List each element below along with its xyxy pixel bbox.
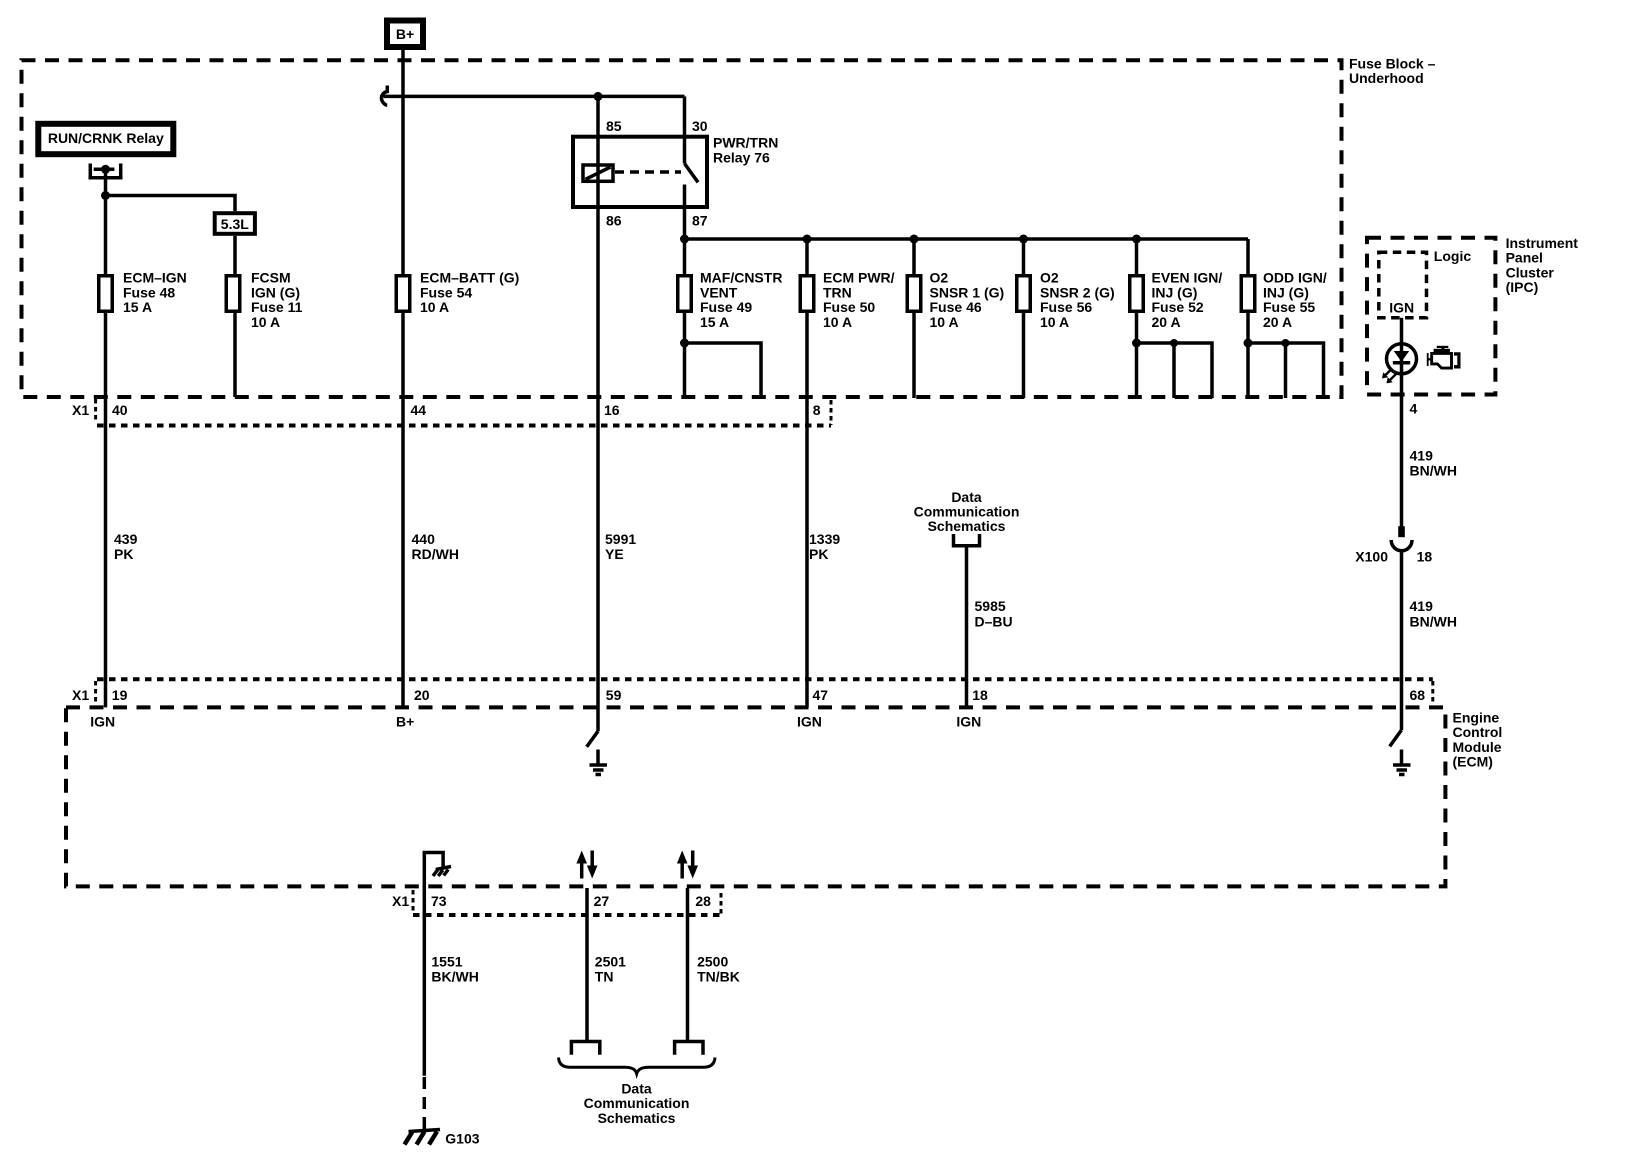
- junction dots ODD bay: [1244, 339, 1253, 348]
- svg-text:18: 18: [1417, 549, 1433, 565]
- ground symbol pin 59: [590, 750, 608, 775]
- svg-text:10 A: 10 A: [420, 299, 449, 315]
- svg-text:EVEN IGN/: EVEN IGN/: [1152, 270, 1223, 286]
- Fuse Block - Underhood dashed box: [22, 60, 1342, 397]
- label wire 5991 YE: [605, 531, 636, 562]
- label Fuse Block - Underhood: [1349, 55, 1436, 86]
- fuse F11 FCSM IGN: [226, 276, 240, 312]
- svg-text:IGN: IGN: [956, 713, 981, 729]
- svg-text:VENT: VENT: [700, 284, 738, 300]
- svg-text:(IPC): (IPC): [1506, 279, 1539, 295]
- label wire 2501 TN: [595, 954, 626, 985]
- svg-text:FCSM: FCSM: [251, 270, 291, 286]
- wire 1551 BK/WH solid part: [423, 888, 427, 1076]
- svg-text:Fuse 52: Fuse 52: [1152, 299, 1204, 315]
- svg-text:85: 85: [606, 118, 622, 134]
- wire 5991 YE relay coil vertical pin16/pin59: [596, 96, 600, 731]
- splice hook at feed left end: [381, 86, 387, 106]
- B+ box: [387, 21, 423, 48]
- svg-text:YE: YE: [605, 546, 624, 562]
- wire 2500 TN/BK (pin 28): [686, 888, 690, 1042]
- svg-text:47: 47: [813, 687, 829, 703]
- wire 5.3L to FCSM fuse to border: [233, 236, 237, 397]
- fuse F48 ECM-IGN: [99, 276, 113, 312]
- svg-text:IGN: IGN: [1389, 300, 1414, 316]
- svg-text:G103: G103: [445, 1131, 479, 1147]
- connector X1 (ECM) left bracket: [94, 681, 97, 703]
- svg-text:ECM–IGN: ECM–IGN: [123, 270, 187, 286]
- label wire 419 BN/WH upper: [1410, 448, 1457, 479]
- svg-text:15 A: 15 A: [700, 314, 729, 330]
- 5.3L box: [215, 213, 255, 234]
- svg-text:Control: Control: [1453, 724, 1503, 740]
- svg-text:Communication: Communication: [584, 1095, 690, 1111]
- label wire 439 PK: [114, 531, 138, 562]
- label wire 5985 D-BU: [975, 598, 1013, 629]
- wire 5985 D-BU: [965, 548, 969, 708]
- svg-text:Fuse 55: Fuse 55: [1263, 299, 1315, 315]
- svg-text:Relay 76: Relay 76: [713, 149, 770, 165]
- svg-text:Fuse 49: Fuse 49: [700, 299, 752, 315]
- svg-text:5985: 5985: [975, 598, 1006, 614]
- svg-text:TN/BK: TN/BK: [697, 968, 740, 984]
- svg-text:MAF/CNSTR: MAF/CNSTR: [700, 270, 782, 286]
- LED wire through: [1400, 344, 1404, 374]
- relay coil: [583, 165, 613, 181]
- svg-text:ECM–BATT (G): ECM–BATT (G): [420, 270, 519, 286]
- label PWR/TRN Relay 76: [713, 135, 778, 166]
- fuse F56 O2 SNSR 2: [1017, 276, 1031, 312]
- svg-text:1339: 1339: [809, 531, 840, 547]
- svg-text:86: 86: [606, 213, 622, 229]
- svg-text:INJ (G): INJ (G): [1263, 284, 1309, 300]
- svg-text:10 A: 10 A: [251, 314, 280, 330]
- svg-text:PWR/TRN: PWR/TRN: [713, 135, 778, 151]
- svg-text:15 A: 15 A: [123, 299, 152, 315]
- LED indicator circle: [1387, 344, 1417, 374]
- up/down arrows pin 28: [677, 851, 698, 879]
- label wire 419 BN/WH lower: [1410, 598, 1457, 629]
- RUN/CRNK Relay box: [38, 124, 173, 154]
- PWR/TRN Relay 76 box: [573, 137, 707, 207]
- svg-text:419: 419: [1410, 448, 1434, 464]
- svg-text:27: 27: [594, 893, 610, 909]
- wire O2 SNSR1 drop: [912, 239, 916, 398]
- ground G103 chassis symbol: [405, 1130, 441, 1145]
- wire ODD IGN drop: [1246, 239, 1250, 398]
- svg-text:TN: TN: [595, 968, 614, 984]
- wire 1551 BK/WH dashed part: [423, 1077, 427, 1133]
- fuse F46 O2 SNSR 1: [907, 276, 921, 312]
- svg-text:439: 439: [114, 531, 138, 547]
- svg-text:Fuse 56: Fuse 56: [1040, 299, 1092, 315]
- svg-text:TRN: TRN: [823, 284, 852, 300]
- svg-text:(ECM): (ECM): [1453, 754, 1493, 770]
- svg-text:Communication: Communication: [914, 504, 1020, 520]
- svg-text:Logic: Logic: [1434, 248, 1472, 264]
- label fuse 54: [420, 270, 519, 315]
- connector X1 row (ECM bottom) dotted line: [413, 913, 721, 917]
- terminator bracket 2500: [675, 1042, 703, 1055]
- ground symbol pin 68: [1393, 750, 1411, 775]
- junction dot bus pin87: [680, 235, 689, 244]
- svg-text:Data: Data: [951, 489, 982, 505]
- svg-text:BN/WH: BN/WH: [1410, 463, 1457, 479]
- svg-text:419: 419: [1410, 598, 1434, 614]
- connector X1 (ECM bottom) left bracket: [412, 890, 415, 912]
- svg-text:Engine: Engine: [1453, 710, 1500, 726]
- check engine icon: [1428, 346, 1461, 369]
- svg-text:Fuse 48: Fuse 48: [123, 284, 175, 300]
- Instrument Panel Cluster (IPC) dashed box: [1367, 238, 1495, 395]
- svg-text:Schematics: Schematics: [598, 1110, 676, 1126]
- svg-text:2501: 2501: [595, 954, 626, 970]
- label wire 1339 PK: [809, 531, 840, 562]
- svg-text:Fuse 46: Fuse 46: [930, 299, 982, 315]
- label fuse 11: [251, 270, 303, 330]
- wire pin30 into relay: [683, 96, 687, 163]
- svg-text:Underhood: Underhood: [1349, 70, 1424, 86]
- terminator bracket 2501: [571, 1042, 599, 1055]
- junction dot bus x1023.5: [1019, 235, 1028, 244]
- svg-text:IGN: IGN: [797, 713, 822, 729]
- wire 1339 PK pin8/pin47: [805, 239, 809, 707]
- Logic dashed box: [1379, 252, 1427, 317]
- svg-text:Fuse 11: Fuse 11: [251, 299, 303, 315]
- svg-text:28: 28: [695, 893, 711, 909]
- svg-text:2500: 2500: [697, 954, 728, 970]
- svg-text:IGN: IGN: [90, 713, 115, 729]
- wire 439 PK pin40/pin19 vertical: [104, 169, 108, 707]
- svg-text:19: 19: [112, 687, 128, 703]
- LED emission arrows: [1382, 369, 1396, 383]
- relay actuation dashed line: [615, 170, 681, 174]
- junction dots EVEN bay: [1132, 339, 1141, 348]
- fuse F49 MAF/CNSTR VENT: [678, 276, 692, 312]
- connector X1 (ECM bottom) right bracket: [720, 893, 723, 915]
- wire 2501 TN (pin 27): [585, 888, 589, 1042]
- wire EVEN IGN drop: [1135, 239, 1139, 398]
- svg-text:Cluster: Cluster: [1506, 264, 1555, 280]
- svg-text:RUN/CRNK Relay: RUN/CRNK Relay: [48, 130, 164, 146]
- up/down arrows pin 27: [576, 851, 597, 879]
- wire feed horizontal B+ to relay: [384, 95, 685, 99]
- label fuse 56: [1040, 270, 1115, 330]
- svg-text:IGN (G): IGN (G): [251, 284, 300, 300]
- svg-text:O2: O2: [930, 270, 949, 286]
- EVEN bay: [1137, 343, 1213, 398]
- wire jog above ground (pin 68): [1390, 730, 1402, 746]
- svg-text:Fuse 50: Fuse 50: [823, 299, 875, 315]
- svg-text:44: 44: [411, 402, 427, 418]
- label wire 440 RD/WH: [412, 531, 459, 562]
- svg-text:10 A: 10 A: [930, 314, 959, 330]
- junction dot feed/coil: [594, 92, 603, 101]
- fuse F50 ECM PWR/TRN: [800, 276, 814, 312]
- X100 pin nub: [1398, 526, 1405, 537]
- svg-text:18: 18: [972, 687, 988, 703]
- label Instrument Panel Cluster (IPC): [1506, 235, 1579, 295]
- svg-text:68: 68: [1410, 687, 1426, 703]
- svg-text:SNSR 2 (G): SNSR 2 (G): [1040, 284, 1115, 300]
- svg-text:BK/WH: BK/WH: [431, 968, 478, 984]
- svg-text:Fuse 54: Fuse 54: [420, 284, 472, 300]
- label fuse 48: [123, 270, 187, 315]
- svg-text:10 A: 10 A: [823, 314, 852, 330]
- connector X1 (fuse block) left bracket: [94, 399, 97, 421]
- svg-text:87: 87: [692, 213, 708, 229]
- LED cathode bar: [1393, 361, 1410, 365]
- junction dot MAF bay: [680, 339, 689, 348]
- fuse F52 EVEN IGN/INJ: [1130, 276, 1144, 312]
- svg-text:30: 30: [692, 118, 708, 134]
- svg-text:16: 16: [604, 402, 620, 418]
- wire 419 BN/WH lower (X100 to pin68): [1400, 551, 1404, 731]
- Engine Control Module (ECM) dashed box: [66, 707, 1445, 886]
- bus wire y239: [685, 237, 1249, 241]
- relay switch blade: [685, 164, 699, 183]
- svg-text:Instrument: Instrument: [1506, 235, 1579, 251]
- svg-text:ECM PWR/: ECM PWR/: [823, 270, 895, 286]
- label fuse 55: [1263, 270, 1327, 330]
- svg-text:20 A: 20 A: [1152, 314, 1181, 330]
- label wire 2500 TN/BK: [697, 954, 740, 985]
- svg-text:PK: PK: [809, 546, 828, 562]
- svg-text:PK: PK: [114, 546, 133, 562]
- label data communication schematics (bottom): [584, 1080, 690, 1126]
- wire branch to 5.3L: [106, 196, 236, 212]
- connector X1 row (fuse block) dotted line: [97, 424, 831, 428]
- svg-text:B+: B+: [396, 26, 414, 42]
- brace data communication schematics: [559, 1058, 716, 1074]
- junction dot branch: [101, 191, 110, 200]
- svg-text:40: 40: [112, 402, 128, 418]
- svg-text:Panel: Panel: [1506, 250, 1543, 266]
- svg-text:X100: X100: [1355, 549, 1388, 565]
- junction dot bus x807: [803, 235, 812, 244]
- label fuse 50: [823, 270, 895, 330]
- wire 419 BN/WH upper (IPC to X100): [1400, 318, 1404, 531]
- svg-text:73: 73: [431, 893, 447, 909]
- connector X1 (fuse block) right bracket: [830, 400, 833, 425]
- label fuse 52: [1152, 270, 1223, 330]
- svg-text:440: 440: [412, 531, 436, 547]
- svg-text:Schematics: Schematics: [928, 518, 1006, 534]
- svg-text:5991: 5991: [605, 531, 636, 547]
- wire jog above ground (pin 59): [587, 731, 598, 747]
- data comm bracket above 5985: [954, 534, 980, 546]
- svg-text:20: 20: [414, 687, 430, 703]
- svg-text:ODD IGN/: ODD IGN/: [1263, 270, 1327, 286]
- label fuse 46: [930, 270, 1005, 330]
- svg-text:20 A: 20 A: [1263, 314, 1292, 330]
- svg-text:8: 8: [813, 402, 821, 418]
- svg-text:59: 59: [606, 687, 622, 703]
- label Engine Control Module (ECM): [1453, 710, 1503, 770]
- wire O2 SNSR2 drop: [1022, 239, 1026, 398]
- X100 connector arc: [1391, 540, 1412, 551]
- junction dot bus x1136.5: [1132, 235, 1141, 244]
- svg-text:X1: X1: [72, 402, 89, 418]
- fuse F54 ECM-BATT: [396, 276, 410, 312]
- svg-text:D–BU: D–BU: [975, 613, 1013, 629]
- junction dot bus x914: [910, 235, 919, 244]
- ODD bay: [1248, 343, 1324, 398]
- MAF bay: [685, 343, 762, 398]
- label wire 1551 BK/WH: [431, 954, 478, 985]
- svg-text:B+: B+: [396, 713, 414, 729]
- ECM internal ground hook (pin 73): [424, 853, 451, 888]
- LED triangle: [1394, 351, 1409, 362]
- wire 440 RD/WH B+ vertical: [401, 50, 405, 707]
- svg-text:RD/WH: RD/WH: [412, 546, 459, 562]
- relay contact terminal symbol: [89, 164, 123, 178]
- svg-text:SNSR 1 (G): SNSR 1 (G): [930, 284, 1005, 300]
- svg-text:4: 4: [1410, 401, 1418, 417]
- svg-text:BN/WH: BN/WH: [1410, 613, 1457, 629]
- svg-text:1551: 1551: [431, 954, 462, 970]
- svg-text:Data: Data: [621, 1080, 652, 1096]
- wire pin87 to bus and MAF fuse: [683, 185, 687, 399]
- svg-text:O2: O2: [1040, 270, 1059, 286]
- svg-text:X1: X1: [392, 893, 409, 909]
- svg-text:Module: Module: [1453, 739, 1502, 755]
- svg-text:X1: X1: [72, 687, 89, 703]
- label data communication schematics (top): [914, 489, 1020, 534]
- fuse F55 ODD IGN/INJ: [1241, 276, 1255, 312]
- svg-text:INJ (G): INJ (G): [1152, 284, 1198, 300]
- connector X1 row (ECM top) dotted line: [97, 677, 1433, 681]
- label fuse 49: [700, 270, 782, 330]
- connector X1 (ECM) right bracket: [1431, 681, 1434, 705]
- svg-text:10 A: 10 A: [1040, 314, 1069, 330]
- svg-text:Fuse Block –: Fuse Block –: [1349, 55, 1436, 71]
- svg-text:5.3L: 5.3L: [221, 216, 249, 232]
